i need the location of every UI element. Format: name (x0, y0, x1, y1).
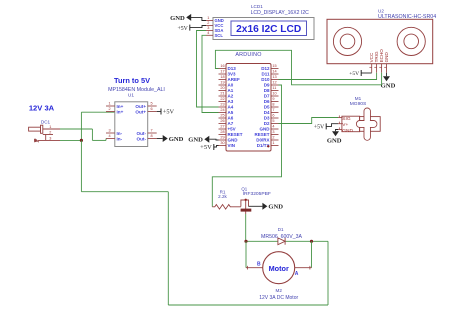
svg-text:D13: D13 (228, 66, 237, 71)
svg-text:M2: M2 (276, 288, 283, 293)
svg-text:D1: D1 (278, 227, 284, 232)
svg-text:+5V: +5V (163, 109, 175, 116)
svg-text:4: 4 (272, 124, 274, 128)
svg-text:+5V: +5V (177, 26, 188, 32)
power connector DC1 (29, 119, 60, 142)
svg-text:RESET: RESET (254, 132, 269, 137)
resistor R1 2.2k (212, 189, 241, 209)
svg-text:D8: D8 (264, 88, 270, 93)
svg-text:5: 5 (272, 119, 274, 123)
svg-text:3: 3 (272, 130, 274, 134)
svg-text:8: 8 (272, 102, 274, 106)
svg-text:28: 28 (220, 130, 224, 134)
svg-text:RESET: RESET (228, 132, 243, 137)
ground GND at ARDUINO GND pin (188, 136, 218, 144)
svg-text:D7: D7 (264, 94, 270, 99)
motor M2 labels (259, 288, 298, 301)
svg-text:M1: M1 (355, 96, 362, 101)
svg-text:+5V: +5V (200, 144, 212, 151)
svg-text:15: 15 (272, 64, 276, 68)
svg-text:D9: D9 (264, 83, 270, 88)
pin numbers DC1 (49, 125, 51, 140)
svg-text:24: 24 (220, 108, 224, 112)
svg-text:D0/RX: D0/RX (256, 138, 269, 143)
svg-text:1: 1 (108, 102, 110, 106)
servo M1 MG90S labels (350, 96, 367, 107)
wire 12V rail to motor loop (81, 140, 328, 305)
svg-text:D3: D3 (264, 116, 270, 121)
svg-text:GND: GND (327, 138, 342, 145)
svg-text:VIN: VIN (228, 143, 236, 148)
sensor U2 HC-SR04 labels (378, 9, 436, 20)
wire diode row (246, 240, 312, 242)
servo M1 body (342, 108, 380, 140)
wire motor B (245, 241, 247, 267)
svg-text:A4: A4 (228, 105, 234, 110)
svg-text:12V 3A DC Motor: 12V 3A DC Motor (259, 295, 298, 301)
motor M2 (246, 252, 312, 284)
svg-text:GND: GND (268, 204, 283, 211)
svg-text:2: 2 (108, 107, 110, 111)
pin names U1 (117, 104, 147, 142)
pins U1 (106, 102, 157, 139)
svg-text:MP1584EN Module_ALI: MP1584EN Module_ALI (108, 87, 165, 93)
wire motor A (311, 241, 313, 267)
svg-text:A: A (295, 271, 299, 277)
svg-text:2: 2 (272, 135, 274, 139)
pins LCD1 (206, 16, 224, 38)
svg-text:A3: A3 (228, 99, 234, 104)
svg-text:GND: GND (228, 138, 239, 143)
svg-text:D12: D12 (261, 66, 270, 71)
svg-text:4: 4 (207, 31, 209, 35)
svg-text:1: 1 (207, 16, 209, 20)
svg-text:8: 8 (150, 134, 152, 138)
svg-text:30: 30 (220, 141, 224, 145)
wire ECHO to D13 (215, 50, 381, 85)
svg-text:1: 1 (272, 141, 274, 145)
ground GND at M1 (327, 130, 342, 145)
svg-text:GND: GND (170, 15, 185, 22)
svg-text:A6: A6 (228, 116, 234, 121)
svg-text:A1: A1 (228, 88, 234, 93)
junction diode left (244, 240, 247, 243)
svg-text:25: 25 (220, 113, 224, 117)
svg-text:7: 7 (272, 108, 274, 112)
wire Q1 drain to motor (245, 214, 248, 241)
svg-text:Out-: Out- (137, 137, 147, 142)
junction diode right (310, 240, 313, 243)
svg-text:In+: In+ (117, 110, 124, 115)
label Turn to 5V (114, 76, 150, 85)
svg-text:1: 1 (49, 125, 51, 129)
svg-text:MG90S: MG90S (350, 101, 367, 107)
power +5V at M1 V+ (314, 123, 338, 130)
svg-text:26: 26 (220, 119, 224, 123)
label 12V 3A (29, 103, 55, 112)
svg-text:In-: In- (117, 131, 123, 136)
svg-text:11: 11 (272, 86, 276, 90)
svg-text:V+: V+ (342, 122, 348, 128)
wire SDA to A4 (197, 31, 219, 108)
svg-text:14: 14 (272, 69, 276, 73)
svg-text:Turn to 5V: Turn to 5V (114, 76, 150, 85)
svg-text:2: 2 (207, 21, 209, 25)
sensor U2 HC-SR04 body (327, 19, 433, 63)
svg-text:3: 3 (108, 129, 110, 133)
svg-text:In+: In+ (117, 104, 124, 109)
lcd LCD1 body (213, 18, 314, 40)
svg-text:Out+: Out+ (135, 110, 146, 115)
svg-text:6: 6 (150, 107, 152, 111)
svg-text:29: 29 (220, 135, 224, 139)
ground GND at LCD1 (170, 14, 206, 22)
wire TRIG to D10 (279, 73, 377, 80)
svg-text:3: 3 (207, 26, 209, 30)
svg-text:+5V: +5V (349, 71, 359, 77)
pins U2 (369, 49, 389, 73)
svg-text:MR506_600V_3A: MR506_600V_3A (261, 234, 302, 240)
svg-text:GND: GND (188, 137, 203, 144)
svg-text:GND: GND (260, 127, 271, 132)
diode D1 (278, 238, 285, 245)
svg-text:DC1: DC1 (41, 119, 51, 124)
svg-text:19: 19 (220, 80, 224, 84)
svg-text:27: 27 (220, 124, 224, 128)
wire DC pin3 to U1 In+ (12V- rail) (60, 112, 115, 140)
pins M1 (338, 115, 342, 129)
svg-text:+5V: +5V (228, 127, 236, 132)
svg-text:D2: D2 (264, 121, 270, 126)
svg-text:SCL: SCL (215, 33, 224, 38)
svg-text:GND: GND (342, 128, 353, 134)
svg-text:13: 13 (272, 75, 276, 79)
svg-text:16: 16 (220, 64, 224, 68)
junction 12V rail (80, 139, 83, 142)
pins ARDUINO (219, 64, 279, 146)
svg-text:D11: D11 (261, 72, 270, 77)
power +5V at ARDUINO VIN (200, 144, 218, 151)
svg-text:A5: A5 (228, 110, 234, 115)
power +5V at U2 VCC (349, 70, 372, 77)
svg-text:A7: A7 (228, 121, 234, 126)
svg-text:ARDUINO: ARDUINO (235, 52, 261, 58)
svg-text:Out-: Out- (137, 131, 147, 136)
diode D1 labels (261, 227, 302, 240)
svg-text:GND: GND (169, 136, 184, 143)
svg-text:GND: GND (384, 52, 389, 63)
svg-text:A2: A2 (228, 94, 234, 99)
ground GND at U2 (381, 73, 396, 90)
unconnected pin dot D1/TX (267, 145, 269, 147)
svg-text:5: 5 (150, 102, 152, 106)
svg-text:23: 23 (220, 102, 224, 106)
power +5V at LCD1 (177, 25, 206, 32)
svg-text:LCD_DISPLAY_16X2 I2C: LCD_DISPLAY_16X2 I2C (251, 10, 310, 16)
wire D2 to servo SIG (279, 118, 339, 124)
svg-text:2: 2 (49, 131, 51, 135)
svg-text:A0: A0 (228, 83, 234, 88)
svg-text:21: 21 (220, 91, 224, 95)
pin names ARDUINO (228, 66, 271, 148)
svg-text:Out+: Out+ (135, 104, 146, 109)
svg-text:D4: D4 (264, 110, 270, 115)
svg-text:17: 17 (220, 69, 224, 73)
ground GND at Q1 source (249, 203, 284, 211)
svg-text:B: B (257, 261, 261, 267)
svg-text:9: 9 (272, 97, 274, 101)
lcd LCD1 labels (251, 4, 310, 16)
ground GND at U1 Out- (157, 135, 184, 143)
svg-text:12: 12 (272, 80, 276, 84)
svg-text:7: 7 (150, 129, 152, 133)
svg-text:D6: D6 (264, 99, 270, 104)
svg-text:D5: D5 (264, 105, 270, 110)
svg-text:2x16 I2C LCD: 2x16 I2C LCD (236, 24, 301, 35)
svg-text:IRF3205PBF: IRF3205PBF (243, 191, 271, 197)
svg-text:U1: U1 (128, 93, 134, 99)
svg-text:3V3: 3V3 (228, 72, 237, 77)
svg-text:LCD1: LCD1 (251, 4, 263, 9)
wire DC pin1 to U1 In- (60, 129, 106, 140)
svg-text:22: 22 (220, 97, 224, 101)
svg-text:3: 3 (49, 137, 51, 141)
svg-text:18: 18 (220, 75, 224, 79)
svg-text:12V 3A: 12V 3A (29, 103, 55, 112)
svg-text:10: 10 (272, 91, 276, 95)
power +5V at U1 Out+ (157, 109, 175, 116)
mcu ARDUINO body (226, 52, 271, 151)
svg-text:Motor: Motor (269, 264, 289, 273)
svg-text:GND: GND (381, 82, 396, 89)
svg-text:Q1: Q1 (241, 186, 247, 191)
svg-text:In-: In- (117, 137, 123, 142)
svg-text:+5V: +5V (314, 125, 325, 131)
svg-text:6: 6 (272, 113, 274, 117)
wire D9 to R1 gate drive (212, 85, 281, 207)
wire SCL to A5 (202, 35, 219, 112)
svg-text:AREF: AREF (228, 77, 241, 82)
svg-text:D10: D10 (261, 77, 270, 82)
svg-text:4: 4 (108, 134, 110, 138)
svg-text:20: 20 (220, 86, 224, 90)
buck module U1 MP1584EN (108, 87, 165, 147)
svg-text:SIG: SIG (342, 116, 351, 122)
svg-text:2.2k: 2.2k (218, 194, 227, 199)
transistor Q1 IRF3205PBF (241, 186, 271, 214)
